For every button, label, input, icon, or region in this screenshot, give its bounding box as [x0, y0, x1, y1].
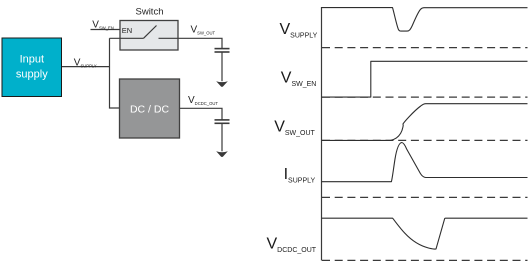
svg-text:VSW_OUT: VSW_OUT [274, 118, 315, 137]
svg-text:EN: EN [122, 26, 132, 35]
svg-text:DC / DC: DC / DC [130, 104, 170, 116]
svg-text:VSUPPLY: VSUPPLY [280, 21, 318, 40]
svg-text:ISUPPLY: ISUPPLY [284, 166, 316, 185]
svg-text:VSUPPLY: VSUPPLY [74, 57, 97, 68]
svg-text:VDCDC_OUT: VDCDC_OUT [267, 236, 317, 255]
svg-text:VSW_OUT: VSW_OUT [191, 24, 216, 35]
svg-text:Switch: Switch [136, 7, 164, 18]
svg-text:VDCDC_OUT: VDCDC_OUT [188, 95, 218, 106]
svg-text:supply: supply [16, 69, 48, 81]
svg-text:VSW_EN: VSW_EN [92, 20, 114, 31]
svg-text:VSW_EN: VSW_EN [281, 69, 317, 88]
svg-text:Input: Input [20, 54, 44, 66]
